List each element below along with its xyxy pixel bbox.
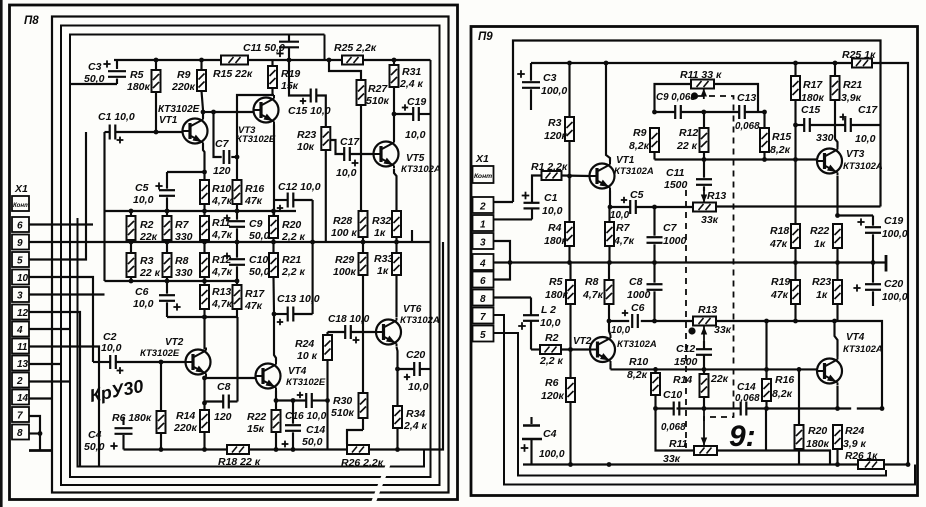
wire pin4	[29, 328, 71, 330]
svg-text:1к: 1к	[374, 227, 386, 239]
svg-text:4,7к: 4,7к	[613, 235, 635, 247]
svg-text:10,0: 10,0	[610, 210, 630, 221]
wire VT2 collector P8	[202, 309, 207, 350]
connector X1 pin 2	[12, 373, 29, 388]
svg-text:C6: C6	[631, 302, 645, 314]
svg-text:14: 14	[17, 393, 29, 404]
svg-text:6: 6	[17, 221, 23, 232]
svg-text:C7: C7	[663, 222, 678, 234]
resistor R14 P9	[673, 369, 729, 408]
connector X1 pin 2 P9	[473, 197, 494, 213]
resistor R13 trimmer P9 top	[693, 190, 726, 226]
svg-text:R2: R2	[140, 219, 154, 231]
resistor R30	[331, 393, 368, 444]
wire VT1 collector P9	[606, 63, 610, 162]
board P9 frame wire bottom2	[494, 315, 916, 485]
svg-text:8: 8	[17, 428, 23, 439]
svg-text:R8: R8	[175, 255, 189, 267]
capacitor C2	[93, 331, 186, 374]
svg-text:8,2к: 8,2к	[770, 144, 791, 156]
svg-text:R21: R21	[843, 79, 862, 91]
resistor R28	[331, 211, 368, 242]
svg-text:22к: 22к	[139, 231, 158, 243]
resistor R10	[200, 172, 233, 211]
connector X1 pin 7	[12, 407, 29, 422]
svg-text:2,2 к: 2,2 к	[539, 355, 564, 367]
capacitor C7	[213, 112, 239, 177]
svg-text:КТ3102А: КТ3102А	[843, 344, 883, 355]
wire pin3 P9	[494, 241, 511, 263]
svg-text:R9: R9	[177, 69, 191, 81]
svg-text:R26 2,2к: R26 2,2к	[341, 457, 384, 469]
wire pin11	[29, 347, 99, 467]
svg-text:C10: C10	[663, 389, 682, 401]
svg-text:R4: R4	[548, 222, 562, 234]
capacitor C5 P9	[610, 189, 644, 221]
transistor VT3 P9	[817, 147, 883, 176]
capacitor C15 P9	[793, 104, 845, 144]
svg-text:11: 11	[17, 342, 28, 353]
resistor R5 P9	[545, 263, 575, 350]
connector X1 Kont box	[12, 196, 30, 211]
svg-text:3: 3	[480, 238, 486, 249]
svg-text:П8: П8	[24, 15, 39, 27]
svg-text:33к: 33к	[701, 214, 719, 226]
svg-text:50,0: 50,0	[249, 230, 270, 242]
svg-text:C16 10,0: C16 10,0	[285, 411, 327, 422]
capacitor C3 P9	[517, 63, 567, 110]
connector X1 pin 4 P9	[473, 254, 494, 270]
connector X1 pin 6	[12, 217, 29, 232]
svg-text:C14: C14	[737, 382, 756, 393]
svg-text:R14: R14	[176, 410, 195, 422]
wire pin2 P9	[494, 201, 514, 203]
svg-text:C3: C3	[543, 72, 557, 84]
connector X1 pin 8 P9	[473, 290, 494, 306]
svg-text:10,0: 10,0	[542, 205, 563, 217]
svg-text:R24: R24	[295, 338, 314, 350]
wire base VT3 P8	[211, 110, 253, 115]
board P8 frame wire 3	[61, 26, 440, 486]
connector X1 pin 14	[12, 390, 29, 405]
svg-text:C5: C5	[135, 182, 149, 194]
svg-text:R16: R16	[245, 183, 264, 195]
svg-text:R16: R16	[775, 374, 794, 386]
svg-text:C13 10,0: C13 10,0	[277, 293, 320, 305]
resistor R27	[329, 60, 390, 211]
svg-text:VT2: VT2	[573, 336, 592, 347]
svg-text:R3: R3	[548, 117, 562, 129]
resistor R25 P9	[842, 49, 908, 465]
svg-text:33к: 33к	[714, 324, 732, 336]
svg-text:10к: 10к	[297, 141, 315, 153]
wire VT2 collector P9	[609, 321, 611, 335]
svg-text:C6: C6	[135, 286, 149, 298]
wire VT4 emitter P9	[836, 386, 838, 409]
svg-text:10,0: 10,0	[540, 317, 561, 329]
svg-text:R6 180к: R6 180к	[112, 412, 152, 424]
svg-text:R28: R28	[333, 215, 352, 227]
wire VT4 emitter P8	[274, 391, 279, 403]
resistor R33	[374, 242, 401, 317]
svg-text:R7: R7	[616, 222, 631, 234]
svg-text:5: 5	[17, 256, 23, 267]
svg-text:13: 13	[17, 359, 29, 370]
svg-text:R3: R3	[140, 255, 154, 267]
capacitor C13 P9	[735, 92, 760, 132]
dashed coupling lines P9	[686, 96, 734, 448]
resistor R17 P8	[233, 281, 266, 317]
resistor R7 P9	[605, 207, 635, 263]
resistor R2	[127, 211, 158, 243]
capacitor C11 P9	[664, 160, 712, 192]
svg-text:C1: C1	[544, 192, 558, 204]
svg-text:100,0: 100,0	[882, 229, 908, 240]
svg-text:120к: 120к	[544, 130, 568, 142]
capacitor C8 P8	[205, 381, 238, 423]
svg-text:100,0: 100,0	[541, 85, 567, 97]
svg-text:10,0: 10,0	[101, 342, 122, 354]
svg-text:C17: C17	[858, 104, 878, 116]
svg-text:R33: R33	[374, 253, 393, 265]
svg-text:330: 330	[175, 267, 193, 279]
wire ground rail P8	[124, 242, 444, 452]
svg-text:180к: 180к	[544, 235, 568, 247]
svg-text:180к: 180к	[127, 81, 151, 93]
svg-text:22 к: 22 к	[676, 140, 698, 152]
connector X1 pin 7 P9	[473, 308, 494, 324]
svg-text:R14: R14	[673, 374, 692, 386]
resistor R25	[334, 42, 377, 65]
resistor R23 P9	[812, 263, 842, 322]
svg-text:330: 330	[816, 132, 834, 144]
svg-text:КТ3102Е: КТ3102Е	[286, 377, 326, 388]
svg-text:8,2к: 8,2к	[772, 388, 793, 400]
svg-text:R10: R10	[629, 356, 648, 368]
svg-text:C19: C19	[884, 215, 903, 227]
svg-text:R6: R6	[545, 377, 559, 389]
svg-text:4: 4	[479, 259, 486, 270]
board P9 outer frame	[471, 27, 918, 496]
svg-text:220к: 220к	[173, 422, 198, 434]
wire pin10	[29, 277, 93, 362]
svg-text:C8: C8	[217, 381, 231, 393]
svg-text:10,0: 10,0	[408, 381, 429, 393]
svg-text:100,0: 100,0	[539, 449, 565, 460]
capacitor C9 P9	[656, 92, 696, 119]
svg-text:КТ3102Е: КТ3102Е	[236, 134, 276, 145]
scan border strip left	[0, 0, 3, 507]
capacitor C16 P8	[276, 392, 330, 422]
resistor R1 P9	[531, 161, 590, 202]
capacitor C3	[70, 60, 126, 85]
svg-text:R5: R5	[130, 69, 144, 81]
capacitor C17 P9	[840, 104, 881, 145]
svg-text:12: 12	[17, 308, 29, 319]
svg-text:C5: C5	[630, 189, 644, 201]
svg-text:R13: R13	[212, 286, 231, 298]
svg-text:8: 8	[480, 294, 486, 305]
resistor R19 P9	[770, 263, 800, 322]
resistor R20	[269, 211, 306, 243]
svg-text:C14: C14	[306, 424, 325, 436]
svg-text:C3: C3	[88, 61, 102, 73]
svg-text:R24: R24	[845, 425, 864, 437]
svg-text:9:: 9:	[729, 420, 756, 453]
transistor VT4 P8	[256, 362, 326, 391]
svg-text:120: 120	[214, 411, 232, 423]
capacitor C5	[133, 172, 175, 211]
svg-text:C15: C15	[801, 104, 820, 116]
svg-text:R19: R19	[281, 68, 300, 80]
svg-text:100к: 100к	[333, 266, 357, 278]
transistor VT1 P8	[158, 104, 208, 146]
svg-text:VT4: VT4	[288, 366, 307, 377]
svg-text:510к: 510к	[366, 95, 390, 107]
connector X1 pin 3 P9	[473, 233, 494, 249]
capacitor C2 P9	[518, 298, 560, 350]
wire rail y211 P8	[105, 132, 297, 213]
svg-text:3,9к: 3,9к	[841, 92, 862, 104]
resistor R8 P9	[582, 263, 614, 322]
resistor R2 P9	[531, 332, 590, 367]
resistor R15	[213, 56, 253, 81]
svg-text:10,0: 10,0	[336, 167, 357, 179]
wire base rail VT3 P9	[655, 157, 818, 162]
wire mid supply rail P9	[495, 255, 886, 272]
resistor R11 trimmer P9 top	[655, 69, 759, 112]
svg-text:10,0: 10,0	[611, 325, 631, 336]
capacitor C20 P8	[395, 349, 430, 393]
resistor R17 P9	[791, 63, 825, 160]
svg-text:R12: R12	[679, 127, 698, 139]
resistor R13 P8	[200, 281, 233, 310]
svg-text:8,2к: 8,2к	[629, 140, 650, 152]
resistor R3 P9	[544, 63, 574, 176]
ground	[29, 431, 51, 450]
svg-text:VT5: VT5	[406, 153, 425, 164]
svg-text:C1 10,0: C1 10,0	[98, 111, 135, 123]
capacitor C12 P8	[274, 181, 321, 314]
connector X1 label	[14, 183, 28, 195]
svg-text:R7: R7	[175, 219, 190, 231]
svg-text:10,0: 10,0	[405, 129, 426, 141]
svg-text:C20: C20	[406, 349, 425, 361]
svg-text:R31: R31	[402, 66, 421, 78]
svg-text:220к: 220к	[171, 81, 196, 93]
resistor R18 P9	[769, 160, 800, 263]
svg-text:КТ3102А: КТ3102А	[617, 339, 657, 350]
svg-text:Конт: Конт	[474, 173, 492, 180]
svg-text:2: 2	[16, 376, 23, 387]
svg-text:47к: 47к	[769, 238, 788, 250]
svg-text:R21: R21	[282, 254, 301, 266]
svg-text:R20: R20	[282, 219, 301, 231]
connector X1 pin 9	[12, 235, 29, 250]
svg-text:R23: R23	[812, 276, 831, 288]
wire VT2 emitter P8	[202, 376, 255, 411]
connector X1 pin 3	[12, 287, 29, 302]
svg-text:R20: R20	[808, 425, 827, 437]
transistor VT5	[374, 140, 441, 176]
svg-text:VT2: VT2	[165, 337, 184, 348]
svg-text:1к: 1к	[816, 289, 828, 301]
wire row y321 P9	[607, 319, 885, 411]
svg-text:R2: R2	[545, 332, 559, 344]
resistor R16 P9	[762, 321, 794, 409]
svg-text:1к: 1к	[377, 265, 389, 277]
wire pin5	[29, 132, 86, 260]
svg-text:R18: R18	[770, 225, 789, 237]
wire clef right P9	[766, 409, 830, 465]
svg-text:10,0: 10,0	[855, 133, 876, 145]
svg-text:R30: R30	[333, 395, 352, 407]
resistor R14 P8	[173, 410, 209, 450]
transistor VT1 P9	[590, 155, 654, 191]
trimmer arrow R11 top	[701, 89, 707, 115]
svg-text:4: 4	[16, 325, 23, 336]
resistor R24 P8	[295, 332, 332, 450]
svg-text:R10: R10	[212, 183, 231, 195]
transistor VT2 P8	[140, 337, 211, 377]
capacitor C12 P9	[674, 341, 712, 369]
resistor R21 P8	[269, 242, 306, 314]
resistor R21 P9	[831, 63, 863, 147]
svg-text:7: 7	[17, 411, 23, 422]
svg-text:VT4: VT4	[846, 332, 865, 343]
svg-text:X1: X1	[475, 153, 489, 165]
wire pin2	[29, 380, 70, 382]
capacitor C1 P8	[98, 111, 183, 143]
wire emitter row P9 top	[610, 205, 693, 210]
board P9 frame wire 2	[513, 41, 881, 207]
svg-text:C8: C8	[629, 276, 643, 288]
wire VT1 collector	[201, 110, 214, 119]
svg-text:2: 2	[479, 202, 486, 213]
resistor R7	[163, 211, 193, 243]
svg-text:C7: C7	[215, 138, 230, 150]
svg-text:КТ3102А: КТ3102А	[614, 166, 654, 177]
transistor VT3 P8	[236, 96, 279, 146]
resistor R19	[268, 60, 300, 95]
svg-text:R13: R13	[707, 190, 726, 202]
svg-text:50,0: 50,0	[84, 441, 105, 453]
svg-text:C11: C11	[666, 167, 685, 179]
stamp kruzo	[88, 376, 145, 406]
svg-text:100 к: 100 к	[331, 227, 357, 239]
svg-text:33к: 33к	[663, 453, 681, 465]
svg-text:7: 7	[480, 312, 486, 323]
resistor R26 P9	[845, 451, 910, 469]
capacitor C20 P9	[853, 263, 907, 307]
svg-text:L 2: L 2	[541, 304, 556, 316]
resistor R22 P9	[810, 224, 842, 263]
svg-text:R23: R23	[297, 129, 316, 141]
resistor R16	[233, 157, 265, 211]
resistor R20 P9	[795, 369, 830, 464]
resistor R9 P9	[629, 127, 659, 160]
svg-text:2,4 к: 2,4 к	[399, 78, 424, 90]
svg-text:R34: R34	[406, 408, 425, 420]
svg-text:330: 330	[175, 231, 193, 243]
wire emitter row VT1	[167, 144, 207, 175]
svg-text:4,7к: 4,7к	[582, 289, 604, 301]
svg-text:КТ3102Е: КТ3102Е	[158, 104, 200, 115]
wire rail y242 P8	[105, 240, 431, 245]
node dot C9	[691, 92, 698, 99]
svg-text:180к: 180к	[545, 289, 569, 301]
resistor R4 P9	[544, 176, 574, 263]
wire pin12	[29, 312, 80, 467]
capacitor C11	[243, 35, 299, 61]
board P8 frame wire 5	[78, 218, 425, 467]
svg-text:R25 1к: R25 1к	[842, 49, 876, 61]
resistor R23	[297, 127, 330, 242]
svg-text:R29: R29	[335, 254, 354, 266]
svg-text:180к: 180к	[806, 438, 830, 450]
svg-text:C4: C4	[88, 429, 102, 441]
svg-text:6: 6	[480, 276, 486, 287]
wire base row VT4 P9	[611, 367, 818, 372]
board P8 frame wire 2	[52, 17, 449, 493]
svg-text:47к: 47к	[244, 195, 263, 207]
svg-text:4,7к: 4,7к	[211, 266, 233, 278]
capacitor C18 P8	[328, 314, 377, 343]
svg-text:КТ3102А: КТ3102А	[843, 161, 883, 172]
svg-text:C4: C4	[543, 428, 557, 440]
svg-text:R19: R19	[771, 276, 790, 288]
connector X1 pin 12	[12, 305, 29, 320]
svg-text:1000: 1000	[663, 235, 687, 247]
capacitor C1 P9	[522, 192, 563, 220]
svg-text:R15 22к: R15 22к	[213, 68, 253, 80]
wire y317 row P8	[167, 315, 238, 402]
wire VT3 emitter P8	[273, 125, 275, 217]
resistor R18	[218, 445, 261, 468]
wire pin14	[29, 397, 52, 399]
svg-text:3,9 к: 3,9 к	[843, 438, 867, 450]
resistor R13 trimmer P9 bottom	[688, 304, 731, 341]
wire VT3 collector P8	[237, 95, 274, 157]
wire VT6 emitter	[397, 347, 398, 406]
resistor R15 P9	[760, 112, 791, 160]
svg-text:VT1: VT1	[616, 155, 635, 166]
svg-text:3: 3	[17, 291, 23, 302]
svg-text:510к: 510к	[331, 407, 355, 419]
bass clef mark	[729, 420, 756, 453]
resistor R6 P9	[541, 350, 575, 465]
svg-text:22 к: 22 к	[139, 267, 161, 279]
svg-text:C11 50,0: C11 50,0	[243, 42, 285, 54]
svg-text:4,7к: 4,7к	[211, 195, 233, 207]
resistor R26 P8	[341, 445, 384, 469]
connector X1 pin 1 P9	[473, 215, 494, 231]
resistor R22 P8	[247, 401, 281, 450]
svg-text:R25 2,2к: R25 2,2к	[334, 42, 377, 54]
wire feedback right P9	[0, 0, 1, 1]
resistor R6	[112, 362, 166, 450]
resistor R10 P9	[627, 356, 660, 409]
svg-text:КТ3102А: КТ3102А	[401, 164, 441, 175]
connector X1 pin 4	[12, 322, 29, 337]
transistor VT2 P9	[573, 335, 657, 364]
svg-text:C12 10,0: C12 10,0	[278, 181, 321, 193]
transistor VT4 P9	[817, 332, 883, 386]
board P9 frame wire bottom3	[494, 333, 887, 476]
wire pin7	[29, 416, 40, 433]
connector X1 pin 11	[12, 339, 29, 354]
svg-text:1500: 1500	[664, 179, 688, 191]
